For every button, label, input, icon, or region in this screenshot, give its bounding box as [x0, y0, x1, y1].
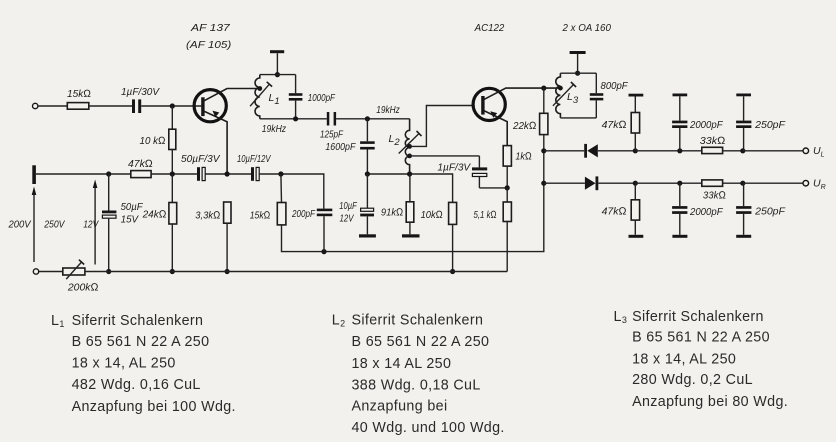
svg-text:33kΩ: 33kΩ	[700, 135, 726, 147]
wire rail 47k to cap	[151, 173, 197, 175]
inductor L3	[556, 73, 561, 118]
wire row2 mid	[635, 182, 702, 184]
capacitor 250pF upper	[736, 94, 751, 97]
capacitor 10uF/12V inline	[251, 167, 254, 181]
wire rail segment mid-right	[367, 174, 452, 202]
wire D1 to node	[598, 150, 636, 152]
wire L3 tank top	[560, 72, 596, 74]
resistor 1kOhm	[503, 146, 511, 167]
svg-text:33kΩ: 33kΩ	[703, 190, 726, 202]
node L1 top	[275, 72, 280, 77]
wire R15k to C1uF	[89, 105, 132, 107]
svg-text:10 kΩ: 10 kΩ	[140, 135, 166, 147]
supply bar top L3	[570, 51, 586, 54]
wire C1uF to base	[141, 105, 201, 107]
svg-text:18 x 14, AL 250: 18 x 14, AL 250	[632, 352, 736, 368]
svg-text:50µF/3V: 50µF/3V	[181, 153, 220, 165]
inductor L1	[255, 75, 260, 119]
svg-text:800pF: 800pF	[601, 80, 629, 92]
node 10k 24k junction	[170, 171, 175, 176]
svg-text:2000pF: 2000pF	[689, 119, 723, 131]
node L3 tap	[558, 86, 563, 91]
voltage arrow 200V	[33, 191, 35, 262]
resistor 10kOhm bias	[169, 129, 176, 149]
capacitor 2000pF lower	[679, 183, 681, 206]
resistor 33kOhm upper	[702, 147, 723, 153]
node emitter rail junction	[225, 171, 230, 176]
node rail 1600pF	[365, 171, 370, 176]
supply stem L1	[276, 53, 278, 74]
node L2 bottom tap2	[407, 154, 412, 159]
transistor Q2 emitter wire	[484, 111, 507, 146]
resistor 47kOhm rail	[131, 171, 151, 178]
resistor 15kOhm input	[67, 103, 89, 110]
node 50uF15V top	[106, 171, 111, 176]
wire tap2 to C1uF3V	[410, 155, 480, 157]
svg-text:19kHz: 19kHz	[376, 104, 400, 116]
transistor Q2 base bar	[481, 96, 484, 115]
svg-text:15kΩ: 15kΩ	[250, 210, 271, 222]
supply stem L3	[577, 54, 579, 73]
resistor 91kOhm	[409, 174, 411, 202]
resistor 10kOhm mid	[449, 202, 457, 224]
capacitor 200pF	[317, 209, 333, 212]
node 50uF bottom	[106, 269, 111, 274]
arrow L1 core	[250, 84, 269, 106]
resistor 5,1kOhm	[506, 188, 508, 202]
transistor Q2 emitter arrow	[490, 111, 497, 118]
svg-text:12V: 12V	[83, 219, 99, 231]
resistor 33kOhm lower	[702, 180, 723, 186]
svg-text:250pF: 250pF	[754, 119, 785, 131]
wire row1 mid	[635, 150, 702, 152]
wire C1uF3V to emitter node	[479, 187, 507, 189]
svg-text:B 65 561 N 22 A 250: B 65 561 N 22 A 250	[632, 330, 770, 346]
wire diode row1	[544, 150, 584, 152]
voltage arrow 12V	[94, 183, 96, 265]
svg-text:482 Wdg. 0,16 CuL: 482 Wdg. 0,16 CuL	[72, 377, 201, 393]
wire R10k to rail	[171, 150, 173, 175]
resistor 47kOhm lower	[634, 183, 636, 200]
svg-text:Anzapfung bei: Anzapfung bei	[352, 399, 448, 415]
svg-text:10µF: 10µF	[339, 200, 357, 212]
arrow L2 core	[399, 134, 419, 154]
node 47k lower	[633, 181, 638, 186]
svg-text:125pF: 125pF	[320, 129, 343, 141]
terminal UR	[803, 180, 809, 186]
resistor 22kOhm	[543, 88, 545, 113]
resistor 15kOhm mid	[280, 174, 283, 203]
svg-text:47kΩ: 47kΩ	[602, 206, 627, 218]
wire 33k lower to node	[723, 182, 743, 184]
node L2 tap1	[407, 144, 412, 149]
node 1600pF junction	[365, 116, 370, 121]
svg-text:12V: 12V	[340, 213, 355, 225]
capacitor 1600pF shunt	[366, 119, 368, 142]
svg-text:Anzapfung bei 80 Wdg.: Anzapfung bei 80 Wdg.	[632, 394, 788, 410]
svg-text:AC122: AC122	[474, 22, 505, 34]
wire rail left	[36, 173, 131, 175]
svg-text:Siferrit Schalenkern: Siferrit Schalenkern	[632, 309, 764, 325]
svg-text:1600pF: 1600pF	[325, 141, 355, 153]
node 200pF bottom	[321, 249, 326, 254]
node 2000pF lower	[677, 181, 682, 186]
supply bar top L1	[270, 50, 284, 53]
node emitter 1uF junction	[505, 185, 510, 190]
svg-text:24kΩ: 24kΩ	[142, 209, 167, 221]
resistor 47kOhm upper	[629, 94, 644, 97]
capacitor 1uF/3V	[478, 156, 480, 168]
svg-text:B 65 561 N 22 A 250: B 65 561 N 22 A 250	[352, 334, 490, 350]
capacitor 1uF/30V	[132, 99, 135, 113]
transistor Q1 base bar	[201, 97, 204, 116]
wire row2 to UR	[743, 182, 803, 184]
svg-text:5,1 kΩ: 5,1 kΩ	[474, 209, 497, 221]
node 3,3k bottom	[225, 269, 230, 274]
node base junction	[170, 103, 175, 108]
svg-text:200pF: 200pF	[291, 208, 315, 220]
capacitor 800pF	[595, 73, 597, 93]
svg-text:AF 137: AF 137	[190, 22, 231, 34]
svg-text:1µF/30V: 1µF/30V	[121, 86, 160, 98]
svg-text:22kΩ: 22kΩ	[512, 120, 536, 132]
node diode row2 left	[541, 181, 546, 186]
diode D2 OA160	[585, 177, 596, 190]
node 250pF lower	[740, 181, 745, 186]
wire rail right to 200pF corner	[260, 174, 324, 209]
wire L1 tank bottom	[260, 118, 327, 120]
ground bar 91k	[402, 234, 420, 237]
svg-text:280 Wdg. 0,2 CuL: 280 Wdg. 0,2 CuL	[632, 372, 753, 388]
svg-text:91kΩ: 91kΩ	[381, 207, 403, 219]
wire diode row2	[544, 182, 585, 184]
diode D1 OA160	[584, 144, 587, 158]
wire D2 to node	[598, 182, 635, 184]
capacitor 10uF/12V shunt	[366, 174, 368, 208]
wire 33k to node	[723, 150, 743, 152]
wire row1 to UL	[743, 150, 803, 152]
svg-text:15kΩ: 15kΩ	[67, 88, 91, 100]
svg-text:388 Wdg. 0,18 CuL: 388 Wdg. 0,18 CuL	[352, 378, 481, 394]
node 47k upper	[633, 148, 638, 153]
node L3 top	[575, 71, 580, 76]
svg-text:2000pF: 2000pF	[689, 206, 723, 218]
svg-text:18 x 14 AL 250: 18 x 14 AL 250	[352, 356, 452, 372]
svg-text:47kΩ: 47kΩ	[128, 158, 153, 170]
svg-text:1kΩ: 1kΩ	[515, 151, 531, 163]
transistor Q1 AF137 circle	[194, 90, 226, 122]
node 15k mid top	[278, 171, 283, 176]
capacitor 2000pF upper	[673, 94, 688, 97]
node 250pF upper	[740, 148, 745, 153]
node 10k bottom	[450, 269, 455, 274]
svg-text:1µF/3V: 1µF/3V	[437, 162, 471, 174]
inductor L2	[405, 119, 409, 174]
wire node down to R10k	[171, 106, 173, 129]
node L1 tap	[257, 86, 262, 91]
svg-text:Siferrit Schalenkern: Siferrit Schalenkern	[72, 313, 204, 329]
svg-text:200V: 200V	[8, 219, 32, 231]
svg-text:15V: 15V	[121, 214, 139, 226]
node 2000pF upper	[677, 148, 682, 153]
transistor Q2 collector wire	[484, 88, 561, 100]
svg-text:250pF: 250pF	[754, 206, 785, 218]
terminal bottom left	[33, 269, 38, 274]
rail terminal bar left	[32, 165, 36, 184]
svg-text:200kΩ: 200kΩ	[67, 282, 99, 294]
capacitor 1000pF	[295, 75, 297, 94]
transistor Q1 emitter arrow	[212, 111, 219, 118]
svg-text:Anzapfung bei 100 Wdg.: Anzapfung bei 100 Wdg.	[72, 399, 236, 415]
svg-text:Siferrit Schalenkern: Siferrit Schalenkern	[352, 313, 484, 329]
potentiometer 200kOhm	[63, 268, 85, 275]
svg-text:18 x 14, AL 250: 18 x 14, AL 250	[72, 356, 176, 372]
svg-text:40 Wdg. und 100 Wdg.: 40 Wdg. und 100 Wdg.	[352, 420, 505, 436]
transistor Q1 emitter wire	[204, 111, 227, 174]
capacitor 50uF/15V	[108, 174, 110, 211]
svg-text:19kHz: 19kHz	[262, 123, 287, 135]
svg-text:250V: 250V	[43, 219, 65, 231]
svg-text:10kΩ: 10kΩ	[421, 209, 443, 221]
input terminal	[33, 103, 38, 108]
svg-text:(AF 105): (AF 105)	[186, 39, 231, 51]
terminal UL	[803, 148, 809, 154]
svg-text:10µF/12V: 10µF/12V	[237, 153, 271, 165]
svg-text:B 65 561 N 22 A 250: B 65 561 N 22 A 250	[72, 334, 210, 350]
wire collector drop	[282, 151, 544, 252]
ground bar 10uF	[359, 234, 376, 237]
node L1 bottom	[293, 116, 298, 121]
svg-text:2 x OA 160: 2 x OA 160	[562, 22, 611, 34]
wire L3 tank bottom	[560, 117, 596, 119]
node 24k bottom	[170, 269, 175, 274]
svg-text:1000pF: 1000pF	[308, 92, 336, 104]
capacitor 50uF/3V inline	[197, 167, 200, 181]
wire rail cap to cap	[206, 173, 252, 175]
resistor 24kOhm	[171, 174, 173, 203]
arrow L3 core	[553, 85, 574, 106]
svg-text:50µF: 50µF	[121, 201, 144, 213]
wire input to R15k	[38, 105, 67, 107]
transistor Q2 AC122 circle	[473, 88, 505, 120]
wire L1 tank top	[260, 74, 296, 76]
node collector 22k	[541, 86, 546, 91]
resistor 3,3kOhm	[224, 202, 231, 223]
transistor Q1 collector wire	[204, 89, 260, 101]
capacitor 125pF/1600pF series	[327, 112, 330, 126]
node rail L2	[407, 171, 412, 176]
wire L2 tap to AC122 base	[410, 106, 473, 147]
svg-text:3,3kΩ: 3,3kΩ	[195, 210, 220, 222]
node diode row1 left	[541, 148, 546, 153]
svg-text:47kΩ: 47kΩ	[602, 119, 627, 131]
wire series cap to L2	[336, 118, 410, 120]
capacitor 250pF lower	[743, 183, 745, 206]
wire bottom return	[39, 271, 63, 273]
